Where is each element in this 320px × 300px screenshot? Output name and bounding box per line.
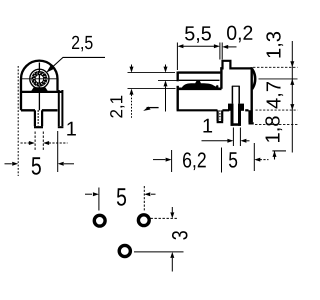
side view tower right face bbox=[250, 67, 252, 122]
dimension 1 (middle pin width) bbox=[202, 128, 250, 147]
label 2,1 (rotated) bbox=[110, 96, 124, 118]
footprint hole bottom bbox=[119, 245, 130, 256]
label 5 (footprint) bbox=[117, 188, 126, 205]
side view arm left face bbox=[176, 72, 178, 111]
side view middle pin channel walls (upper) bbox=[232, 86, 240, 103]
extension lines left of side view bbox=[128, 73, 177, 89]
side view tower top with tab bbox=[220, 61, 251, 69]
LED hole outer circle bbox=[30, 69, 49, 88]
bottom dimension extension lines bbox=[172, 143, 255, 173]
dimension 5 (front width) bbox=[5, 66, 75, 176]
side view slot top line bbox=[179, 79, 220, 81]
dimension 1 (arm top wall, left) bbox=[165, 65, 167, 112]
front view outline (dome body) bbox=[21, 61, 62, 111]
right chain arrowheads bbox=[290, 61, 294, 110]
label 5,5 bbox=[185, 26, 211, 43]
dimension 6,2 / 5 (bottom) bbox=[153, 159, 269, 161]
loose arrow 1,8 bottom bbox=[272, 151, 286, 160]
right dimension chain line bbox=[291, 41, 293, 153]
front view centerline horizontal bbox=[22, 78, 58, 80]
side view left pin bbox=[217, 110, 224, 122]
leader arrow (1 dim) bbox=[143, 107, 158, 111]
footprint dimension 5 bbox=[85, 186, 156, 211]
side view tower left edge bbox=[220, 67, 222, 89]
front pin bbox=[34, 110, 43, 127]
label 4,7 (rotated) bbox=[267, 82, 284, 109]
side view middle pin (T shape) bbox=[228, 104, 244, 126]
label 5 (front) bbox=[32, 157, 41, 174]
side view lens (black) bbox=[181, 81, 218, 89]
label 1,8 (rotated) bbox=[265, 116, 282, 142]
label 1 (middle pin) bbox=[203, 119, 212, 133]
dimension 5,5 (top) bbox=[177, 43, 220, 71]
footprint dimension 3 bbox=[134, 207, 184, 272]
dimension 0,2 (top) bbox=[222, 43, 236, 60]
label 3 (rotated) bbox=[172, 231, 188, 240]
label 1,3 (rotated) bbox=[266, 32, 283, 58]
label 6,2 bbox=[183, 152, 206, 170]
front view center divider bbox=[38, 63, 40, 111]
footprint hole left bbox=[94, 215, 105, 226]
footprint hole right bbox=[138, 215, 149, 226]
label 0,2 bbox=[227, 26, 252, 43]
side view arm top wall bbox=[178, 71, 221, 73]
dimension 1 (front pin width) bbox=[21, 132, 68, 151]
right dimension chain extension lines bbox=[253, 67, 298, 124]
rear pin (right of dome) bbox=[58, 90, 64, 127]
label 1 (front pin) bbox=[67, 122, 76, 136]
leader line for 2,5 bbox=[48, 57, 105, 71]
label 5 (bottom side view) bbox=[229, 152, 237, 167]
dimension 2,1 (left) bbox=[131, 65, 133, 119]
LED base trapezoid bbox=[30, 87, 48, 92]
side view dome arc profile bbox=[252, 69, 255, 89]
LED knurled ring bbox=[32, 72, 46, 86]
side view shelf (slot bottom) bbox=[177, 87, 222, 90]
label 2,5 bbox=[72, 36, 93, 52]
side view right pin bbox=[249, 110, 254, 123]
side view body bottom edge bbox=[177, 109, 249, 111]
